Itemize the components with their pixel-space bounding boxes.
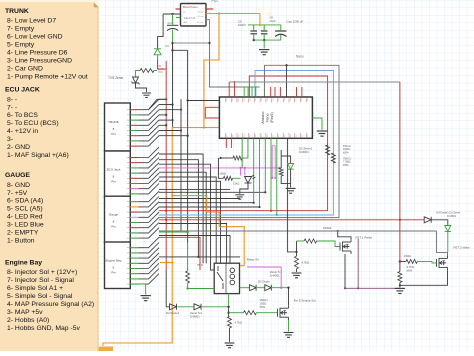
- TRUNK pin 7 wire: [130, 140, 138, 142]
- wire fet1 gate feed: [296, 241, 298, 252]
- wire run K: [159, 224, 227, 264]
- wire green comb drop: [247, 87, 249, 97]
- junction left pin a: [186, 99, 188, 101]
- junction capgnd2: [263, 39, 265, 41]
- wire trunk net 1: [159, 98, 166, 100]
- wire diode mid: [178, 306, 194, 308]
- wire r6 to tvs: [136, 71, 138, 78]
- capacitor Avalanche: [167, 25, 178, 30]
- wire pin drop: [276, 138, 278, 215]
- diode D4: [154, 49, 161, 55]
- wire tvs to gnd: [136, 83, 147, 92]
- ECU Jack pin 6 wire: [130, 183, 138, 185]
- wire green comb drop: [251, 87, 253, 97]
- wire net fet bus: [159, 230, 436, 232]
- svg-text:Nano: Nano: [296, 55, 304, 59]
- ground tvs: [142, 93, 151, 97]
- junction trunk 4: [165, 114, 167, 116]
- wire red fet2 drop: [399, 82, 401, 261]
- junction relay red: [165, 219, 167, 221]
- svg-text:5- SCL (A5): 5- SCL (A5): [7, 206, 43, 213]
- wire r7 lead: [242, 157, 248, 159]
- svg-text:Engine Bay: Engine Bay: [106, 258, 122, 262]
- svg-text:(Rev3): (Rev3): [270, 112, 274, 123]
- svg-text:Arduino: Arduino: [261, 112, 265, 124]
- wire pin stub red top: [279, 87, 281, 97]
- junction orange rail: [218, 12, 220, 14]
- svg-text:4.7kΩ: 4.7kΩ: [235, 321, 242, 325]
- wire bus to diode row: [165, 270, 167, 307]
- wire 12V feed drop: [158, 14, 164, 49]
- junction t2: [233, 81, 235, 83]
- power module PS1: [181, 4, 207, 27]
- svg-text:D2 Diode1: D2 Diode1: [166, 311, 180, 315]
- svg-text:GAUGE: GAUGE: [5, 172, 30, 179]
- wire avalanche cap bottom: [172, 30, 174, 44]
- wire green comb drop: [243, 87, 245, 97]
- diode D2 Diode1: [170, 304, 177, 310]
- relay K1: [214, 263, 239, 293]
- junction fet5 drain: [287, 287, 289, 289]
- wire vin red right stub: [206, 8, 213, 10]
- junction trunk 8: [186, 135, 188, 137]
- capacitor C6: [261, 31, 268, 34]
- svg-text:Aval: Aval: [168, 21, 173, 25]
- wire led gnd: [240, 183, 248, 194]
- LED D5: [245, 175, 256, 183]
- wire r8 right: [233, 177, 241, 179]
- wire trunk net 8: [159, 135, 188, 137]
- junction r7 feed: [219, 157, 221, 159]
- Engine Bay pin 4 wire: [130, 262, 138, 264]
- wire net dark stub: [286, 65, 288, 97]
- ground led: [235, 195, 244, 199]
- TRUNK pin 4 wire: [130, 124, 138, 126]
- TRUNK pin 3 wire: [130, 119, 138, 121]
- wire orange relay net: [172, 196, 244, 266]
- svg-text:2- GND: 2- GND: [7, 144, 30, 151]
- svg-text:100nF: 100nF: [238, 23, 246, 27]
- wire gnd comb link: [210, 43, 243, 87]
- svg-text:ECU Jack: ECU Jack: [107, 167, 121, 171]
- wire right pin gnd: [312, 118, 322, 130]
- diode D4b: [424, 217, 431, 223]
- wire zener top: [280, 150, 282, 168]
- junction gate row: [227, 312, 229, 314]
- svg-text:8- -: 8- -: [7, 96, 17, 103]
- zener 5.1: [265, 285, 272, 291]
- Gauge pin 5 wire: [130, 222, 138, 224]
- wire run D: [159, 177, 216, 263]
- junction fet2 source: [399, 284, 401, 286]
- svg-text:TVS Zener: TVS Zener: [108, 76, 124, 80]
- wire dark bus 181: [180, 99, 182, 231]
- ECU Jack pin 1 wire: [130, 157, 138, 159]
- wire pin stub red top: [274, 87, 276, 97]
- junction coil gnd: [186, 287, 188, 289]
- junction trunk 1: [165, 98, 167, 100]
- junction trunk 3: [180, 109, 182, 111]
- svg-text:D4 Diode1 D3 Zener: D4 Diode1 D3 Zener: [436, 211, 460, 215]
- wire fet1 pulldown: [296, 252, 298, 256]
- junction trunk 6: [165, 124, 167, 126]
- wire d2 mid: [256, 287, 265, 289]
- zener D3b: [445, 226, 451, 232]
- resistor R13: [228, 317, 232, 329]
- wire pin drop gate: [288, 138, 297, 252]
- svg-text:Pin: Pin: [111, 224, 116, 228]
- wire pink vert a: [271, 146, 273, 178]
- svg-text:6- Simple Sol A1 +: 6- Simple Sol A1 +: [7, 285, 63, 292]
- wire trunk net 5: [159, 119, 173, 121]
- junction fet1 gate: [295, 251, 297, 253]
- wire zener bottom: [281, 169, 290, 183]
- wire pin stub b1: [225, 138, 227, 148]
- svg-text:Gauge: Gauge: [109, 212, 119, 216]
- svg-text:8- Injector Sol + (12V+): 8- Injector Sol + (12V+): [7, 269, 77, 276]
- wire cap gnd stub: [263, 40, 265, 48]
- connector ECU Jack: [105, 151, 131, 198]
- junction orange a: [171, 194, 173, 196]
- ECU Jack pin 3 wire: [130, 167, 138, 169]
- svg-text:150Ω: 150Ω: [404, 254, 411, 258]
- svg-text:6- SDA (A4): 6- SDA (A4): [7, 198, 43, 205]
- junction orange d: [171, 261, 173, 263]
- junction pink2: [244, 167, 246, 169]
- transistor Q5 Fet 5: [278, 305, 289, 320]
- svg-text:150Ω: 150Ω: [220, 172, 227, 176]
- TRUNK pin 2 wire: [130, 114, 138, 116]
- wire fet1 pulldown gnd: [296, 269, 298, 272]
- svg-text:FET 2 Valve: FET 2 Valve: [454, 246, 471, 250]
- svg-text:±5%: ±5%: [343, 150, 349, 154]
- wire d4 to zener: [431, 220, 448, 226]
- wire run A2: [159, 160, 198, 257]
- wire pin drop: [264, 138, 266, 192]
- wire fet1 gate row2: [317, 241, 340, 247]
- svg-text:150Ω2: 150Ω2: [323, 226, 332, 230]
- wire engine gnd: [130, 284, 145, 294]
- wire net SCL magenta: [159, 167, 280, 169]
- junction pink5: [274, 177, 276, 179]
- wire r7 feed: [221, 157, 234, 159]
- wire fet1 gate row: [297, 240, 305, 242]
- resistor R7: [233, 156, 242, 160]
- wire d2 to fet5: [271, 287, 288, 289]
- wire trunk net 2: [159, 104, 173, 106]
- svg-text:15kΩ: 15kΩ: [233, 182, 239, 186]
- TVS zener: [132, 77, 140, 85]
- wire net SDA red: [159, 76, 328, 211]
- wire 12V feed: [163, 13, 180, 15]
- wire pulldown gnd: [229, 328, 231, 342]
- wire cap top bus: [248, 24, 281, 26]
- resistor R18: [398, 272, 402, 283]
- Gauge pin 6 wire: [130, 227, 138, 229]
- svg-text:1- Button: 1- Button: [7, 237, 35, 244]
- svg-text:±5%: ±5%: [407, 268, 413, 272]
- op-amp U1 Arduino Nano: [219, 97, 312, 138]
- junction trunk 7: [180, 129, 182, 131]
- wire cap bottom bus: [254, 39, 281, 41]
- TRUNK pin 6 wire: [130, 135, 138, 137]
- wire psu gnd stub: [173, 20, 210, 43]
- wire pink drop1: [240, 168, 242, 176]
- resistor R17: [406, 259, 418, 263]
- wire pulldown feed: [228, 307, 230, 317]
- svg-text:4.7kΩ: 4.7kΩ: [302, 261, 309, 265]
- svg-text:+12 Out: +12 Out: [196, 15, 204, 18]
- Gauge pin 1 wire: [130, 201, 138, 203]
- resistor R6: [137, 70, 140, 72]
- wire pink vert b: [274, 146, 276, 178]
- wire dark 172 bus: [172, 43, 174, 127]
- wire fet1 source: [344, 254, 346, 288]
- svg-text:3- LED Blue: 3- LED Blue: [7, 222, 44, 229]
- svg-text:Output: Output: [197, 11, 203, 14]
- svg-text:D4: D4: [165, 44, 169, 48]
- Engine Bay pin 3 wire: [130, 257, 138, 259]
- wire orange drop arduino: [204, 14, 219, 128]
- junction drop b: [258, 206, 260, 208]
- svg-text:1- Pump Remote +12V out: 1- Pump Remote +12V out: [7, 73, 88, 80]
- wire net blue: [159, 71, 333, 216]
- wire trunk net 6: [159, 124, 166, 126]
- svg-text:Relay 5V: Relay 5V: [247, 258, 259, 262]
- wire run M engine1: [159, 237, 200, 270]
- wire pin stub red top: [296, 87, 298, 97]
- svg-text:Boost Power: Boost Power: [183, 5, 198, 9]
- resistor R15: [304, 239, 317, 243]
- resistor R9: [279, 168, 283, 176]
- junction cap bus orange: [259, 24, 261, 26]
- wire red main bus: [165, 61, 167, 270]
- svg-text:D2 Diode: D2 Diode: [258, 280, 270, 284]
- svg-text:7- -: 7- -: [7, 104, 17, 111]
- TRUNK pin 8 wire: [130, 145, 138, 147]
- junction pink1: [239, 167, 241, 169]
- wire left pin b: [205, 106, 219, 108]
- ECU Jack pin 7 wire: [130, 188, 138, 190]
- svg-text:2- Car GND: 2- Car GND: [7, 65, 43, 72]
- wire pin stub red top: [301, 87, 303, 97]
- junction trunk 5: [171, 119, 173, 121]
- wire vin red left: [175, 8, 180, 10]
- svg-text:4- Line Pressure D6: 4- Line Pressure D6: [7, 49, 68, 56]
- junction runA2: [197, 256, 199, 258]
- svg-text:2- Hobbs (A0): 2- Hobbs (A0): [7, 317, 49, 324]
- svg-text:1- MAF Signal +(A6): 1- MAF Signal +(A6): [7, 152, 69, 159]
- ECU Jack pin 2 wire: [130, 162, 138, 164]
- wire diode to relay: [201, 294, 229, 307]
- junction drop c: [264, 191, 266, 193]
- ground fet1: [292, 273, 302, 278]
- svg-text:5- Simple Sol - Signal: 5- Simple Sol - Signal: [7, 293, 73, 300]
- svg-text:7- Injector Sol - Signal: 7- Injector Sol - Signal: [7, 277, 74, 284]
- resistor R14: [243, 311, 256, 315]
- arduino pin labels: [225, 98, 227, 102]
- Gauge pin 8 wire: [130, 237, 138, 239]
- Gauge pin 4 wire: [130, 216, 138, 218]
- svg-text:6- To BCS: 6- To BCS: [7, 112, 38, 119]
- wire left pin a: [188, 100, 220, 102]
- wire r8 left: [218, 158, 223, 178]
- svg-text:1N4001: 1N4001: [299, 150, 309, 154]
- wire pin drop: [270, 138, 272, 210]
- resistor R12 coil: [186, 271, 190, 283]
- junction pink relay: [280, 287, 282, 289]
- note panel text: [5, 8, 94, 332]
- wire fet5 drain: [288, 288, 290, 306]
- svg-text:8- Low Level D7: 8- Low Level D7: [7, 18, 56, 25]
- wire orange 12V rail: [206, 13, 260, 15]
- svg-text:47µF: 47µF: [269, 19, 276, 23]
- wire net relay red: [159, 219, 424, 221]
- wire gate row2: [256, 312, 277, 314]
- connector Gauge: [105, 196, 131, 243]
- junction 12V feed: [171, 13, 173, 15]
- svg-text:TRUNK: TRUNK: [5, 8, 29, 15]
- wire green 5v stub: [176, 17, 181, 19]
- capacitor C5: [250, 31, 257, 34]
- ECU Jack pin 4 wire: [130, 172, 138, 174]
- wire coil resistor top: [187, 243, 189, 272]
- junction pink4: [271, 177, 273, 179]
- junction rail2: [171, 49, 173, 51]
- wire fet2 drain link: [436, 231, 447, 255]
- resistor R11: [331, 153, 335, 163]
- svg-text:ECU JACK: ECU JACK: [5, 87, 40, 94]
- junction sda2: [270, 210, 272, 212]
- wire relay out: [240, 287, 250, 289]
- wire pin stub t1: [228, 82, 230, 97]
- wire run L: [159, 236, 230, 264]
- svg-text:5- To ECU (BCS): 5- To ECU (BCS): [7, 120, 59, 127]
- connector TRUNK: [105, 103, 131, 151]
- diode D2: [250, 285, 257, 291]
- wire run A: [159, 154, 203, 263]
- wire zener gnd: [290, 184, 292, 188]
- transistor Q2 FET 2: [437, 255, 448, 270]
- wire pink drop2: [244, 168, 246, 176]
- zener 5.2: [194, 304, 201, 310]
- wire fet2 gate row: [400, 260, 406, 262]
- svg-text:4- LED Red: 4- LED Red: [7, 214, 43, 221]
- wire trunk pin1 gnd link: [149, 99, 167, 109]
- svg-text:75 Ω: 75 Ω: [197, 263, 203, 267]
- wire run G: [159, 191, 265, 193]
- junction engine sol: [186, 231, 188, 233]
- note panel background: [0, 0, 99, 3]
- junction purple b: [344, 287, 346, 289]
- svg-text:Pin: Pin: [111, 270, 116, 274]
- junction blue pin: [276, 214, 278, 216]
- transistor Q1 FET 1: [340, 239, 351, 254]
- wire avalanche cap lead: [172, 14, 174, 25]
- wire fet2 pulldown top: [399, 261, 401, 271]
- svg-text:TRUNK: TRUNK: [108, 120, 120, 124]
- wire run F: [159, 188, 230, 190]
- wire zener net: [281, 156, 290, 164]
- svg-text:6- Low Level GND: 6- Low Level GND: [7, 34, 63, 41]
- ground cap bank: [259, 50, 269, 55]
- ground pulldown: [225, 343, 235, 348]
- wire pin stub t2: [234, 82, 236, 97]
- Engine Bay pin 5 wire: [130, 268, 138, 270]
- orange panel corner bar: [0, 347, 113, 352]
- svg-text:±5%: ±5%: [260, 305, 266, 309]
- wire fet2 gate row2: [417, 261, 436, 263]
- svg-text:Pin: Pin: [111, 179, 116, 183]
- wire run B: [159, 164, 214, 270]
- junction gnd comb: [208, 42, 210, 44]
- svg-text:PS1: PS1: [212, 0, 219, 3]
- wire zener d3b down: [447, 232, 449, 253]
- resistor R16: [295, 256, 299, 269]
- wire pin stub b2: [230, 138, 232, 148]
- wire run I: [159, 202, 254, 204]
- wire pin stub red top: [270, 87, 272, 97]
- Gauge pin 3 wire: [130, 211, 138, 213]
- wire coil resistor bottom: [188, 283, 215, 289]
- wire engine sol wire: [159, 231, 188, 233]
- zener D3: [288, 164, 294, 170]
- svg-text:3- MAP +5v: 3- MAP +5v: [7, 309, 43, 316]
- wire orange drop to caps: [259, 14, 261, 25]
- wire pink top: [272, 145, 275, 147]
- junction gray arc: [285, 64, 287, 66]
- wire red riser: [158, 60, 167, 70]
- wire orange engine: [160, 262, 172, 264]
- svg-text:4- MAP Pressure Signal (A2): 4- MAP Pressure Signal (A2): [7, 301, 94, 308]
- svg-text:1N4001: 1N4001: [447, 214, 457, 218]
- wire green comb: [243, 86, 260, 88]
- svg-text:Vin: Vin: [183, 12, 186, 14]
- svg-text:Engine Bay: Engine Bay: [5, 259, 42, 266]
- svg-text:2- EMPTY: 2- EMPTY: [7, 230, 39, 237]
- svg-text:1N4001: 1N4001: [190, 314, 200, 318]
- svg-text:Nano: Nano: [265, 113, 269, 121]
- wire run E: [159, 181, 221, 263]
- Engine Bay pin 1 wire: [130, 247, 138, 249]
- wire fet2 source: [400, 270, 448, 285]
- ECU Jack pin 5 wire: [130, 177, 138, 179]
- Gauge pin 2 wire: [130, 206, 138, 208]
- junction purple a: [357, 287, 359, 289]
- svg-text:Cap 47 uF: Cap 47 uF: [184, 17, 196, 20]
- wire pin drop: [247, 138, 249, 158]
- wire left pin c: [205, 107, 219, 118]
- wire run H: [159, 198, 240, 200]
- svg-text:7- Empty: 7- Empty: [7, 26, 35, 33]
- wire green comb drop: [255, 87, 257, 97]
- junction fet1 drain: [337, 230, 339, 232]
- Gauge pin 7 wire: [130, 232, 138, 234]
- svg-text:Cap 2200 uF: Cap 2200 uF: [287, 20, 304, 24]
- svg-text:3-: 3-: [7, 136, 13, 143]
- junction sda: [165, 210, 167, 212]
- wire net purple2: [345, 287, 400, 289]
- Engine Bay pin 7 wire: [130, 278, 138, 280]
- wire orange branch: [103, 128, 204, 347]
- wire fet2 pulldown bottom: [399, 283, 401, 288]
- svg-text:±5%: ±5%: [343, 163, 349, 167]
- svg-text:GND: GND: [183, 22, 188, 24]
- ground arduino: [317, 131, 327, 136]
- wire trunk net 7: [159, 130, 181, 132]
- wire diode row feed: [166, 306, 169, 308]
- junction drop a: [253, 202, 255, 204]
